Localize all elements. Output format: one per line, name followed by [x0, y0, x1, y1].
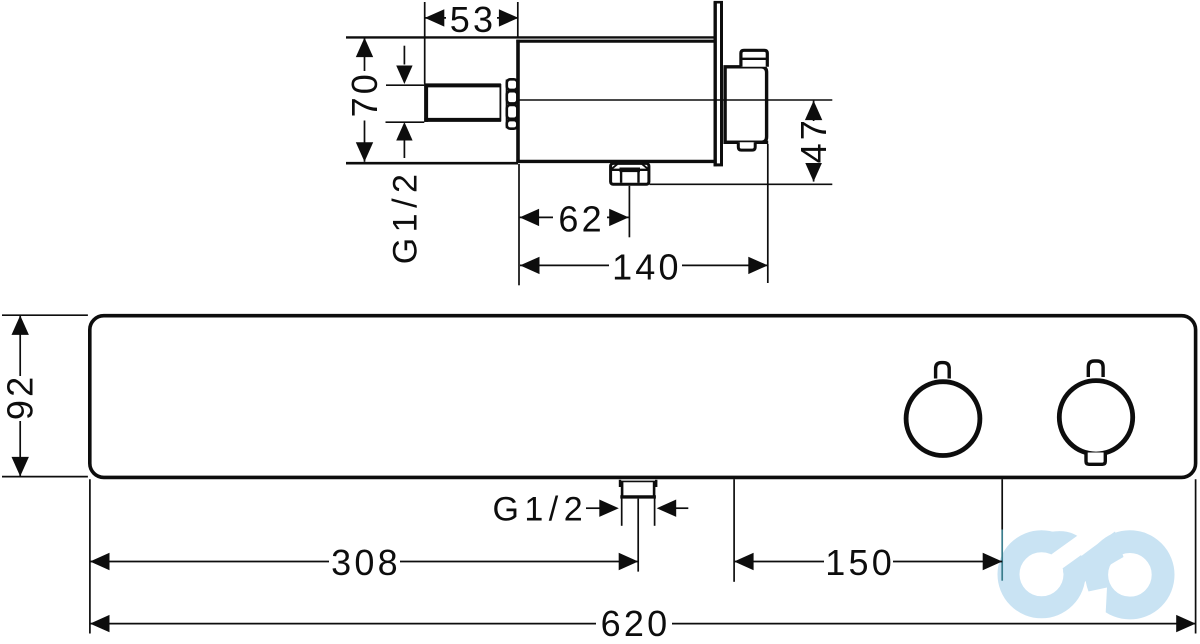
logo C opening cut [1054, 536, 1093, 564]
extension pipe bottom left [386, 121, 425, 123]
svg-text:92: 92 [0, 374, 40, 420]
handle knob [725, 67, 767, 143]
extension outlet centerline [628, 186, 630, 238]
extension line 150 left [733, 479, 735, 582]
right knob top tab [1088, 361, 1103, 377]
extension line outlet left flank [621, 499, 623, 526]
logo watermark [1009, 531, 1164, 626]
extension line bar right edge down [1195, 479, 1197, 633]
extension pipe top left [386, 84, 424, 86]
wall plate [714, 2, 717, 167]
dimension 53 [425, 17, 519, 19]
dimension 140 [520, 264, 768, 266]
valve body outline [516, 40, 715, 43]
svg-text:150: 150 [825, 542, 895, 583]
dimension 47 [813, 101, 815, 182]
svg-text:53: 53 [450, 0, 496, 40]
extension body left down [518, 164, 520, 285]
right volume knob circle [1059, 381, 1132, 454]
extension 53 right [517, 2, 519, 38]
dimension 70 [364, 38, 366, 162]
logo crossing band [1063, 532, 1124, 597]
dimension 308 [90, 561, 638, 563]
svg-text:G1/2: G1/2 [387, 169, 425, 265]
thread collar line [506, 80, 508, 129]
left knob top tab [936, 363, 950, 379]
logo bottom notch [1086, 588, 1107, 627]
bar front view [90, 316, 1196, 478]
extension line outlet right flank [654, 499, 656, 526]
svg-text:140: 140 [612, 246, 682, 287]
extension line outlet bottom to right [650, 183, 833, 185]
svg-text:620: 620 [601, 603, 671, 644]
extension line 150 right over logo [1001, 530, 1003, 581]
thread rings [507, 79, 518, 90]
outlet G1/2 below bar: lip [619, 480, 657, 482]
extension line 92 bottom [2, 476, 88, 478]
dimension 92 [19, 315, 21, 476]
svg-text:70: 70 [344, 71, 385, 117]
body bottom extension line left [346, 162, 518, 165]
supply pipe [424, 83, 501, 87]
left thermostat knob circle [906, 382, 980, 456]
logo left C ring [1009, 541, 1075, 607]
logo C upper terminal [1050, 531, 1084, 555]
dimension 62 [520, 216, 629, 218]
extension line 150 right upper [1001, 479, 1003, 529]
right knob bottom tab [1086, 453, 1105, 465]
body top extension thin line [346, 36, 714, 38]
handle top tab [741, 50, 767, 67]
dimension 150 [734, 561, 1002, 563]
extension 53 left [424, 2, 426, 84]
centerline [520, 99, 833, 101]
dimension 620 [90, 623, 1196, 625]
extension line outlet centerline down [637, 499, 639, 572]
handle bottom tab [738, 142, 755, 150]
svg-text:G1/2: G1/2 [492, 491, 588, 529]
logo right O ring [1097, 542, 1163, 608]
extension knob right down [767, 144, 769, 283]
extension line 92 top [2, 314, 88, 316]
svg-text:62: 62 [558, 198, 604, 239]
svg-text:47: 47 [793, 117, 834, 163]
bottom outlet nut (top view) [611, 163, 649, 184]
G1/2 callout top view [403, 46, 405, 65]
extension line bar left edge down [89, 479, 91, 633]
svg-text:308: 308 [331, 542, 401, 583]
